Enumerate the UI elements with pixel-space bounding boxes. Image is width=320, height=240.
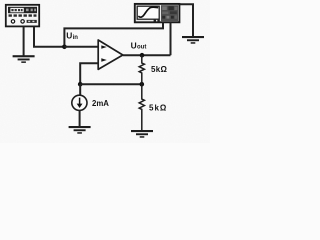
label I1 value 2mA xyxy=(92,99,109,108)
multimeter XMM1 button row xyxy=(9,14,37,16)
wire corner up to oscilloscope channel B xyxy=(170,22,172,55)
label R1 value 5kΩ xyxy=(151,65,167,74)
current source I1 circle xyxy=(72,95,87,110)
wire bottom rail feedback to divider node xyxy=(80,83,142,85)
op-amp U1 input polarity marks xyxy=(101,45,107,61)
ground G4 (under resistor R2) xyxy=(131,130,153,138)
svg-text:5kΩ: 5kΩ xyxy=(149,103,167,112)
multimeter XMM1 terminal jacks xyxy=(11,20,37,23)
multimeter XMM1 display band xyxy=(8,7,37,13)
node Uout junction dot xyxy=(140,53,145,58)
svg-text:U: U xyxy=(131,40,137,50)
wire op-amp output to corner xyxy=(123,54,171,56)
oscilloscope XSC1 body xyxy=(135,4,180,22)
label Uout xyxy=(131,40,147,50)
resistor R2 body xyxy=(139,84,144,130)
multimeter XMM1 body xyxy=(6,5,39,27)
node Uin junction dot xyxy=(62,45,67,50)
svg-text:U: U xyxy=(66,31,72,41)
wire oscilloscope ground lead xyxy=(179,4,193,36)
wire feedback node down to current source xyxy=(79,84,81,95)
oscilloscope XSC1 control panel xyxy=(161,5,178,21)
node divider junction dot xyxy=(140,82,145,87)
op-amp U1 triangle xyxy=(98,40,123,69)
ground G3 (under current source) xyxy=(69,126,91,134)
node feedback junction dot xyxy=(78,82,83,87)
oscilloscope XSC1 terminal marks xyxy=(154,20,160,22)
ground G2 (oscilloscope) xyxy=(182,36,204,44)
svg-text:in: in xyxy=(73,35,79,41)
wire current source to ground xyxy=(79,110,81,126)
ground G1 (under multimeter) xyxy=(13,55,35,63)
wire multimeter minus terminal to ground xyxy=(23,27,25,56)
svg-text:out: out xyxy=(137,45,146,51)
svg-text:5kΩ: 5kΩ xyxy=(151,65,167,74)
label Uin xyxy=(66,31,78,41)
svg-text:2mA: 2mA xyxy=(92,99,109,108)
oscilloscope XSC1 screen with trace xyxy=(137,6,159,19)
label R2 value 5kΩ xyxy=(149,103,167,112)
wire multimeter plus terminal to node Uin xyxy=(34,27,64,47)
wire oscilloscope channel A to node Uin xyxy=(64,22,163,47)
wire node Uin to op-amp non-inverting input xyxy=(64,46,98,48)
wire op-amp inverting input feedback xyxy=(80,63,98,84)
resistor R1 body xyxy=(139,55,144,84)
